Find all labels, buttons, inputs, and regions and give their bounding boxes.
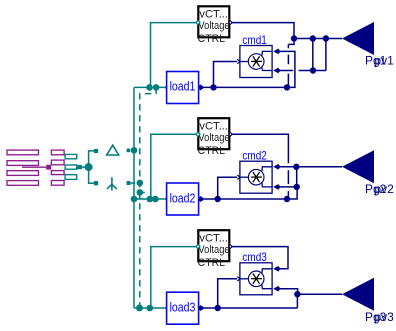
load3 input chevron — [164, 306, 168, 310]
delta bus terminal square — [127, 149, 131, 153]
wire riser to cmd2 input — [218, 177, 238, 199]
svg-text:CTRL: CTRL — [198, 145, 226, 157]
wire load1 teal feeder — [134, 86, 165, 88]
junction dot4 — [310, 67, 316, 73]
grid source bar 2 — [7, 161, 39, 166]
transformer primary winding bar 4 — [51, 181, 64, 186]
wye bus terminal square — [127, 181, 131, 185]
cmd1 upper input arrow — [273, 48, 280, 54]
cmd2 asterisk — [251, 172, 262, 182]
svg-text:load1: load1 — [170, 80, 196, 94]
wire nodeA to gain Pg2 — [296, 166, 342, 168]
wire nodeB hook to load junction — [287, 187, 297, 199]
wire riser to cmd1 input — [214, 62, 238, 88]
cmd2 input chevron — [237, 175, 240, 179]
solid phase bus vertical — [133, 87, 135, 308]
vCTRL2 text — [198, 120, 230, 157]
wire riser to vCTRL3 — [151, 247, 197, 308]
cmd2 box — [240, 161, 272, 193]
delta winding symbol — [107, 145, 119, 155]
svg-text:cmd1: cmd1 — [242, 33, 267, 47]
vCTRL3 input chevron — [196, 245, 200, 249]
cmd3 lower input arrow — [273, 286, 280, 292]
junction riser1 — [210, 84, 216, 90]
junction dot3 — [323, 35, 329, 41]
wire riser to vCTRL2 — [151, 134, 197, 199]
junction dot1 — [291, 35, 297, 41]
load1 box — [167, 72, 199, 104]
wire cmd2 lower input — [279, 186, 297, 188]
wire grid to transformer — [22, 166, 46, 168]
dashed stub neutral — [140, 191, 146, 193]
svg-text:vCT...: vCT... — [199, 232, 228, 244]
junction solid bus phase2 — [131, 196, 138, 203]
vCTRL2 box — [198, 118, 229, 149]
dashed neutral bus vertical — [140, 87, 156, 307]
junction node3 — [294, 291, 300, 297]
vCTRL1 input chevron — [196, 21, 200, 25]
cmd3 input chevron — [237, 277, 240, 281]
gain Pg1 triangle — [342, 22, 374, 55]
cmd1 internal wire upper — [262, 51, 272, 56]
grid source bar 1 — [7, 150, 39, 155]
vCTRL1 text — [198, 9, 230, 46]
dashed stub wye square to dashed bus — [131, 182, 136, 184]
junction feeder1 a — [146, 84, 153, 91]
cmd3 internal wire upper — [262, 269, 272, 274]
transformer primary winding bar 3 — [51, 171, 64, 175]
junction dotC on load2 wire — [284, 196, 290, 202]
vCTRL2 input chevron — [196, 132, 200, 136]
junction feeder3 b — [147, 305, 154, 312]
cmd3 source circle — [248, 271, 264, 287]
svg-text:load2: load2 — [170, 191, 196, 205]
wire nodeA to nodeB — [296, 167, 298, 187]
junction feeder1 b — [153, 84, 160, 91]
cmd1 lower input arrow — [273, 68, 280, 74]
wire load2 to junction — [203, 198, 287, 200]
wire cmd1 lower input — [279, 70, 326, 72]
vCTRL3 output chevron — [230, 245, 233, 249]
wire cmd3 lower input to node — [279, 289, 298, 295]
wire cmd2 upper input to node A — [279, 166, 296, 168]
junction neutral on dashed bus — [137, 189, 144, 196]
svg-text:pv3: pv3 — [374, 310, 394, 324]
transformer primary winding bar 2 — [51, 160, 64, 165]
vCTRL3 text — [198, 232, 230, 269]
svg-text:load3: load3 — [170, 300, 196, 314]
wire node1 to gain Pg1 — [294, 38, 342, 40]
wire riser to cmd3 input — [218, 279, 238, 308]
transformer secondary winding bar 2 — [65, 165, 77, 169]
load1 input arrow — [196, 84, 203, 91]
svg-text:CTRL: CTRL — [198, 33, 226, 45]
load2 input arrow — [196, 196, 203, 203]
svg-text:cmd2: cmd2 — [242, 149, 267, 163]
svg-text:cmd3: cmd3 — [242, 250, 267, 264]
gain Pg3 triangle — [342, 278, 374, 311]
svg-text:pv1: pv1 — [374, 53, 394, 67]
wire vCTRL2 out down to load junction — [232, 134, 288, 196]
cmd2 upper input arrow — [273, 164, 280, 170]
cmd3 asterisk — [251, 274, 262, 284]
svg-text:Voltage: Voltage — [198, 132, 229, 144]
wire load2 teal feeder — [134, 198, 165, 200]
cmd2 internal wire left — [240, 176, 248, 178]
wye output terminal square — [94, 181, 98, 185]
wire load3 teal feeder — [134, 307, 165, 309]
wire terminal to node — [82, 166, 85, 168]
wire vCTRL3 out to cmd3 upper input — [232, 247, 288, 269]
cmd2 lower input arrow — [273, 184, 280, 190]
cmd1 asterisk — [251, 56, 262, 66]
grid source bar 3 — [7, 171, 39, 176]
cmd3 internal wire left — [240, 278, 248, 280]
cmd1 source circle — [248, 54, 264, 70]
wire load1 to junction — [203, 86, 287, 88]
junction riser2 — [215, 196, 221, 202]
dashed bus end junction — [136, 305, 143, 312]
junction feeder2 b — [152, 196, 159, 203]
junction delta to solid bus — [131, 147, 138, 154]
wire node to delta terminal — [89, 151, 94, 167]
node splitter circle — [85, 163, 93, 171]
svg-text:Voltage: Voltage — [198, 20, 229, 32]
junction nodeA — [293, 164, 299, 170]
svg-text:vCT...: vCT... — [199, 120, 228, 132]
wire load3 to corner — [203, 307, 298, 309]
junction feeder2 a — [147, 196, 154, 203]
cmd1 internal wire left — [240, 61, 248, 63]
cmd2 source circle — [248, 169, 264, 185]
svg-text:Voltage: Voltage — [198, 244, 229, 256]
vCTRL3 box — [198, 230, 229, 261]
cmd1 input chevron — [237, 59, 240, 63]
load3 input arrow — [196, 305, 203, 312]
transformer primary terminal square — [46, 165, 51, 170]
wire jog dot1 to load wire — [288, 39, 294, 86]
junction feeder3 a — [136, 305, 143, 312]
cmd3 box — [240, 263, 272, 295]
cmd1 box — [240, 46, 272, 78]
load2 input chevron — [164, 197, 168, 201]
wye winding symbol — [107, 177, 117, 190]
svg-text:pv2: pv2 — [374, 182, 394, 196]
cmd3 upper input arrow — [273, 266, 280, 272]
junction wye on dashed bus — [137, 180, 144, 187]
wire node3 down to load3 wire — [296, 294, 298, 308]
load1 input chevron — [164, 85, 168, 89]
wire riser to vCTRL1 — [151, 23, 197, 88]
wire drop dot3 to lower input — [325, 39, 327, 71]
wire cmd1 upper input hook to load junction — [279, 51, 295, 87]
cmd1 internal wire lower — [262, 67, 272, 71]
vCTRL2 output chevron — [230, 132, 233, 136]
transformer primary winding bar 1 — [51, 150, 64, 155]
grid source bar 4 — [7, 181, 39, 186]
svg-text:CTRL: CTRL — [198, 257, 226, 269]
wire node3 to gain Pg3 — [297, 293, 342, 295]
vCTRL1 output chevron — [230, 21, 233, 25]
gain Pg2 triangle — [342, 150, 374, 183]
svg-text:vCT...: vCT... — [199, 9, 228, 21]
vCTRL1 box — [198, 6, 229, 37]
junction nodeB — [294, 184, 300, 190]
load2 box — [167, 183, 199, 215]
cmd3 internal wire lower — [262, 284, 272, 288]
wire vCTRL1 out to node1 — [232, 23, 294, 39]
cmd2 internal wire lower — [262, 183, 272, 187]
wire node to wye terminal — [89, 167, 94, 183]
delta output terminal square — [94, 149, 98, 153]
junction dot2 — [310, 35, 316, 41]
wire drop dot2 to lower input — [312, 39, 314, 71]
transformer secondary terminal square — [77, 165, 82, 169]
transformer secondary winding bar 3 — [65, 175, 77, 180]
junction dot5 on load1 wire — [284, 84, 290, 90]
load3 box — [167, 292, 199, 324]
cmd2 internal wire upper — [262, 167, 272, 172]
transformer secondary winding bar 1 — [65, 154, 77, 158]
junction riser3 — [215, 305, 221, 311]
